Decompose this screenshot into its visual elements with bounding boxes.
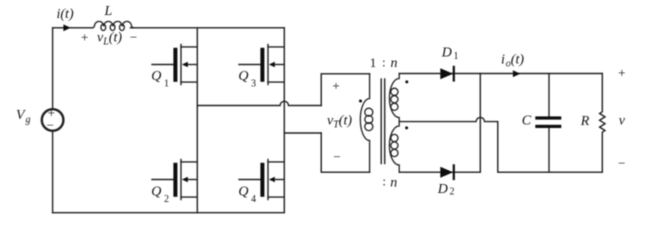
svg-text:2: 2 [164, 194, 169, 205]
secondary bottom polarity dot [405, 126, 408, 129]
svg-text:−: − [47, 118, 54, 133]
svg-text:1: 1 [164, 79, 169, 90]
svg-text:+: + [81, 30, 88, 45]
svg-text:L: L [104, 4, 113, 19]
svg-text::: : [382, 55, 386, 70]
diode D2 [440, 167, 453, 178]
svg-text:i(t): i(t) [57, 7, 74, 22]
svg-text:1: 1 [370, 55, 377, 70]
wire: center tap to output bottom rail with crossover hop [399, 117, 602, 172]
wire: secondary top terminal to output top rail [399, 73, 602, 75]
primary winding [360, 74, 369, 172]
svg-text:Q: Q [238, 185, 248, 200]
transistor Q1 [152, 45, 197, 85]
wire: left rail lower segment [52, 131, 54, 213]
transistor Q4 [239, 160, 284, 200]
wire: Q1 drain to top rail [196, 28, 198, 47]
svg-text:−: − [333, 149, 340, 164]
wire: left leg Q1 source to Q2 drain [196, 82, 198, 162]
svg-text:n: n [390, 175, 397, 190]
svg-text:4: 4 [251, 194, 256, 205]
voltage source Vg [42, 109, 64, 131]
svg-text:D: D [437, 182, 448, 197]
inductor L [93, 21, 134, 28]
wire: D2 cathode rising to output top rail [479, 74, 481, 173]
svg-text::: : [382, 173, 386, 188]
svg-text:−: − [618, 155, 625, 170]
svg-text:vT(t): vT(t) [327, 114, 352, 131]
secondary top polarity dot [405, 80, 408, 83]
svg-text:n: n [391, 56, 398, 71]
secondary bottom winding [389, 122, 399, 173]
diode D1 [440, 68, 453, 79]
transformer core [380, 79, 382, 164]
transistor Q3 [239, 45, 284, 85]
primary port box [321, 74, 369, 106]
svg-text:2: 2 [450, 187, 455, 198]
svg-text:v: v [619, 114, 626, 129]
wire: Q2 source to bottom rail [196, 197, 198, 213]
current arrow i(t) [63, 24, 70, 31]
capacitor C [548, 74, 550, 117]
svg-text:3: 3 [251, 79, 256, 90]
wire: top input rail [53, 27, 93, 29]
svg-text:V: V [16, 108, 26, 123]
transistor Q2 [152, 160, 197, 200]
svg-text:D: D [441, 46, 452, 61]
wire: left-leg midpoint to primary port with crossover hop [197, 101, 321, 105]
svg-text:R: R [580, 114, 590, 129]
svg-text:Q: Q [151, 69, 161, 84]
svg-text:−: − [130, 30, 137, 45]
svg-text:Q: Q [238, 69, 248, 84]
wire: secondary bottom terminal to D2 [399, 171, 480, 173]
wire: left rail upper segment [52, 28, 54, 109]
wire: bottom input rail [53, 212, 285, 214]
svg-text:vL(t): vL(t) [97, 31, 122, 48]
resistor R [600, 74, 605, 173]
wire: right leg Q3 source to Q4 drain [283, 82, 285, 162]
svg-text:Q: Q [151, 185, 161, 200]
svg-text:(t): (t) [511, 53, 525, 68]
svg-text:+: + [618, 65, 625, 80]
primary polarity dot [359, 100, 362, 103]
svg-text:i: i [501, 53, 505, 68]
wire: right-leg midpoint to primary port [284, 132, 321, 134]
svg-text:+: + [332, 78, 339, 93]
svg-text:g: g [26, 115, 31, 126]
wire: Q3 drain to top rail [283, 28, 285, 47]
output current arrow io(t) [513, 70, 521, 77]
wire: Q4 source to bottom rail [283, 197, 285, 213]
secondary top winding [389, 74, 399, 122]
svg-text:1: 1 [454, 51, 459, 62]
svg-text:C: C [522, 114, 532, 129]
